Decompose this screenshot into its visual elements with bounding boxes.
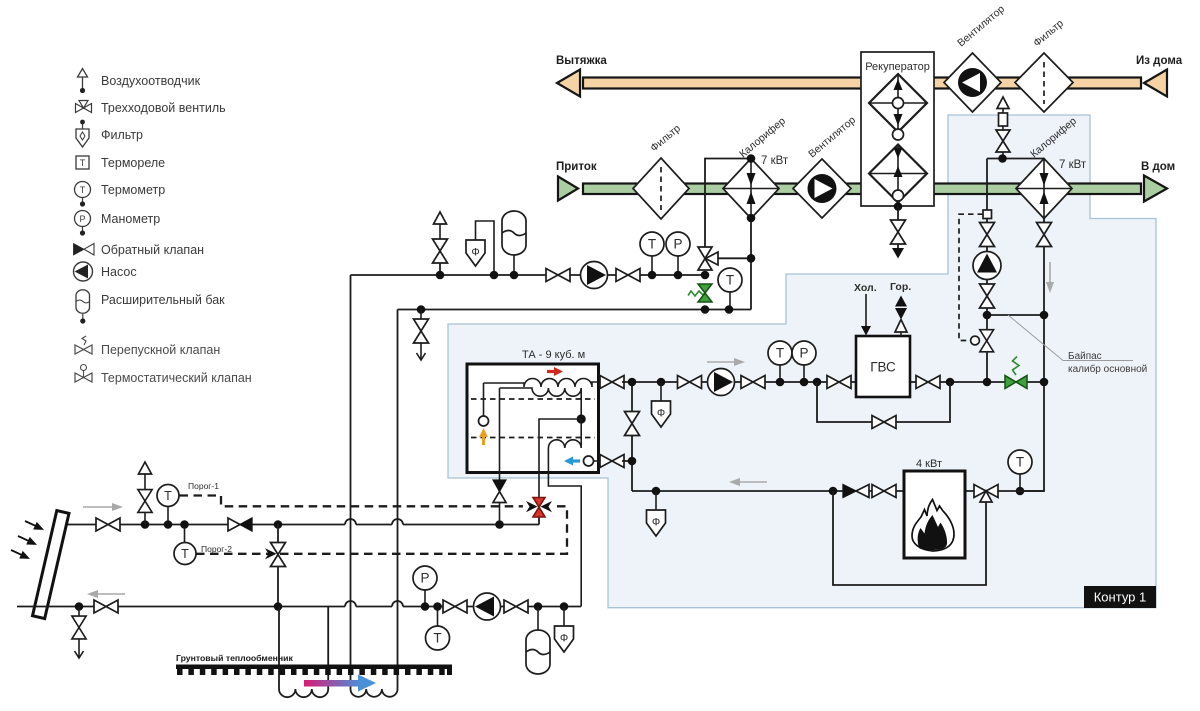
valve y382 b: [741, 376, 765, 389]
three-way valve boiler: [974, 485, 998, 503]
gray arrow right above pump: [707, 358, 745, 366]
svg-text:Приток: Приток: [556, 161, 597, 173]
node P1: [674, 271, 683, 280]
valve solar return: [94, 600, 118, 613]
filter F2 diamond: [1015, 53, 1073, 112]
actuated valve with circle: [971, 330, 994, 352]
sun rays: [9, 517, 46, 562]
wire: riser x397.5 to ground loop: [397, 310, 399, 690]
legend filter icon: [76, 120, 89, 147]
solar dump valve x278: [271, 520, 286, 606]
node x632 top: [628, 378, 637, 387]
expansion tank B2: [526, 602, 550, 674]
svg-text:4 кВт: 4 кВт: [916, 458, 942, 470]
exhaust duct: [583, 78, 1141, 89]
exhaust arrow right (Из дома): [1144, 70, 1167, 97]
pump P3 (up): [973, 252, 1001, 280]
dashed Порог-1 line: [180, 496, 524, 507]
wire: crossover y315: [987, 314, 1044, 316]
air vent V1: [433, 212, 448, 275]
legend relief valve icon: [75, 336, 92, 354]
wire: coil-2 feed jog: [987, 158, 1044, 160]
svg-text:Из дома: Из дома: [1136, 55, 1183, 67]
svg-text:T: T: [164, 489, 172, 503]
recuperator upper diamond: [869, 74, 927, 132]
node tank: [510, 271, 519, 280]
legend thermal relay icon: [76, 156, 89, 169]
node: coil-1 bottom: [747, 214, 756, 223]
supply arrow left (Приток): [558, 177, 578, 201]
valve before boiler: [872, 485, 896, 498]
wire: boiler line y491: [632, 490, 904, 492]
dashed Порог-2 line: [196, 506, 567, 554]
legend pump icon: [74, 262, 93, 281]
filter F4 on y382: [652, 378, 671, 427]
svg-text:Гор.: Гор.: [890, 281, 911, 293]
valve below pump: [980, 284, 995, 308]
manometer P2g: [792, 341, 816, 382]
svg-text:Контур 1: Контур 1: [1094, 590, 1147, 605]
TA bottom port circle: [584, 456, 603, 466]
node filter link: [490, 271, 499, 280]
svg-text:Вытяжка: Вытяжка: [556, 55, 607, 67]
recuperator box U1: [861, 52, 934, 206]
valve solar top: [96, 518, 120, 531]
wire: three-way bypass to return: [718, 258, 751, 309]
orange arrow up: [479, 428, 488, 445]
hop return over x397.5: [392, 601, 403, 607]
supply duct: [583, 184, 1141, 195]
solar collector panel: [33, 511, 69, 619]
node P2g: [800, 378, 809, 387]
pump P2 (right): [708, 369, 735, 396]
filter F5 on boiler line: [647, 487, 666, 536]
wire: right riser x987: [986, 159, 988, 383]
recuperator lower diamond: [869, 145, 927, 203]
ground loop A: [279, 607, 328, 698]
valve y382 a: [678, 376, 702, 389]
filter F6: [555, 602, 574, 652]
svg-text:T: T: [181, 547, 189, 561]
valve on y275 left: [546, 269, 570, 282]
thermometer T3: [768, 341, 792, 382]
boiler bypass loop: [833, 491, 986, 585]
wire: red valve drop: [538, 517, 540, 525]
expansion tank B1: [502, 211, 526, 275]
thermometer T5: [426, 607, 450, 651]
node bypass left: [813, 378, 822, 387]
boiler box 4kW: [904, 471, 965, 558]
blue arrow left: [564, 457, 580, 466]
gray arrow right solar top: [83, 503, 123, 511]
node y315 left: [983, 311, 992, 320]
wire: mixing drop x632: [631, 382, 633, 491]
svg-text:T: T: [80, 185, 86, 195]
svg-text:Фильтр: Фильтр: [101, 128, 143, 142]
svg-text:Насос: Насос: [101, 265, 137, 279]
gray arrow left boiler line: [729, 478, 767, 486]
gray arrow left solar return: [87, 590, 125, 598]
legend thermostatic valve icon: [75, 365, 92, 383]
recuperator drain valve: [897, 207, 899, 249]
legend manometer icon: [75, 211, 91, 236]
fan Вентилятор-1 diamond: [793, 159, 851, 218]
recuperator middle node circle: [893, 129, 904, 140]
svg-text:ГВС: ГВС: [870, 360, 896, 375]
svg-text:Трехходовой вентиль: Трехходовой вентиль: [101, 101, 226, 115]
valve on y275 right: [616, 269, 640, 282]
TA check valve drop: [493, 388, 506, 525]
node green valve bottom: [701, 305, 710, 314]
node x1044 on y382: [1040, 378, 1049, 387]
valve return b: [504, 600, 528, 613]
control square on x987: [983, 210, 992, 219]
control dashed line to actuator: [959, 214, 983, 340]
manometer P3g: [413, 566, 437, 607]
TA lower coil: [548, 419, 581, 607]
hot outlet arrow + check: [895, 296, 907, 337]
svg-text:Хол.: Хол.: [854, 282, 877, 294]
node T1: [648, 271, 657, 280]
valve GVS bypass: [872, 416, 896, 429]
node T2: [725, 305, 734, 314]
node boiler bypass left: [829, 487, 838, 496]
svg-text:Перепускной клапан: Перепускной клапан: [101, 343, 220, 357]
node T4: [1016, 487, 1025, 496]
heater Калорифер-1 diamond: [723, 159, 779, 219]
legend three-way icon: [76, 101, 92, 113]
check valve boiler: [843, 485, 869, 498]
svg-text:Термостатический клапан: Термостатический клапан: [101, 371, 252, 385]
TA inner return jog: [580, 388, 582, 419]
svg-text:ТА - 9 куб. м: ТА - 9 куб. м: [522, 349, 585, 361]
valve on x632: [625, 412, 640, 436]
node: coil-1 top: [747, 154, 756, 163]
node bypass right: [747, 254, 756, 263]
svg-text:Порог-1: Порог-1: [188, 481, 219, 491]
thermometer Порог-1: [157, 485, 179, 529]
red arrow right: [547, 367, 563, 376]
legend air vent icon: [78, 69, 88, 94]
valve TA bottom out: [600, 455, 624, 468]
wire: upper heating supply y275: [351, 274, 706, 276]
svg-text:7 кВт: 7 кВт: [1059, 159, 1087, 171]
supply arrow right (В дом): [1144, 176, 1167, 202]
svg-text:T: T: [80, 158, 86, 168]
gradient flow arrow: [304, 675, 376, 692]
GVS box: [856, 336, 910, 397]
node supply/three-way: [701, 271, 710, 280]
dart into solar dump valve: [265, 548, 277, 559]
node x987 on y382: [983, 378, 992, 387]
valve below Калорифер-2: [1037, 223, 1052, 247]
svg-text:Термореле: Термореле: [101, 156, 165, 170]
TA water level dashed lines: [471, 398, 595, 400]
svg-text:калибр основной: калибр основной: [1068, 363, 1147, 375]
thermometer T2: [718, 268, 742, 310]
svg-text:Манометр: Манометр: [101, 212, 160, 226]
TA charge port circle: [479, 383, 489, 426]
cold inlet arrow: [861, 294, 871, 336]
drain solar: [72, 602, 86, 658]
node x632 mid: [628, 457, 637, 466]
node y315 right: [1040, 311, 1049, 320]
hop return over x350.5: [345, 601, 356, 606]
recuperator drain node: [894, 202, 903, 211]
gray arrow down right riser: [1046, 262, 1054, 293]
node T5: [433, 602, 442, 611]
legend expansion tank icon: [76, 290, 90, 324]
hop over x350.5: [345, 519, 356, 524]
GVS bypass loop: [817, 382, 950, 422]
wire: lower coil line y461: [622, 460, 632, 462]
pump P4 (left): [474, 593, 501, 620]
node air vent: [436, 271, 445, 280]
three-way valve K1: [698, 247, 718, 270]
check valve solar: [228, 518, 252, 531]
TA tank box: [467, 364, 599, 473]
TA red-valve feed jog: [539, 419, 581, 497]
node after GVS: [946, 378, 955, 387]
svg-text:Расширительный бак: Расширительный бак: [101, 293, 225, 307]
wire: solar return y606.5 with hops: [17, 606, 581, 608]
svg-text:Грунтовый теплообменник: Грунтовый теплообменник: [176, 653, 294, 663]
wire: main DHW line y382: [622, 381, 1044, 383]
relief valve chain (перепускной): [996, 97, 1010, 159]
legend thermometer icon: [75, 182, 91, 207]
hop over x397.5: [392, 519, 403, 525]
svg-text:P: P: [79, 214, 85, 224]
fan Вентилятор-2 diamond: [944, 53, 1001, 112]
wire: upper heating return y309.5: [398, 309, 752, 311]
svg-text:Воздухоотводчик: Воздухоотводчик: [101, 74, 201, 88]
filter F3 with U-link: [466, 221, 494, 275]
valve return a: [443, 600, 467, 613]
thermostatic valve green (vertical): [688, 284, 712, 302]
valve TA hot out: [600, 376, 624, 389]
ground exchanger hatch bar: [176, 665, 452, 676]
air vent solar: [138, 462, 152, 529]
Контур 1 shaded region: [448, 115, 1156, 608]
exhaust arrow left (Вытяжка): [557, 70, 580, 97]
filter F1 diamond: [633, 158, 689, 219]
TA top coil lower row: [500, 388, 582, 396]
node TA inner: [577, 414, 586, 423]
thermometer T1: [640, 232, 664, 275]
svg-text:Порог-2: Порог-2: [201, 544, 232, 554]
node solar dump bottom: [274, 602, 283, 611]
svg-text:7 кВт: 7 кВт: [761, 155, 789, 167]
node: coil-2 feed junction: [998, 154, 1007, 163]
svg-text:Термометр: Термометр: [101, 183, 165, 197]
wire: supply coil-1 feed jog: [705, 159, 751, 248]
pump P1 (right): [581, 262, 608, 289]
drain valve on return: [414, 305, 429, 360]
red three-way valve: [526, 498, 552, 518]
svg-text:Байпас: Байпас: [1068, 351, 1102, 362]
wire: coil-1 return drop: [750, 218, 752, 258]
svg-text:В дом: В дом: [1141, 161, 1175, 173]
Контур 1 tag: [1084, 586, 1156, 608]
svg-text:Обратный клапан: Обратный клапан: [101, 243, 204, 257]
wire: riser x350.5 to ground loop: [350, 275, 352, 689]
legend check valve icon: [74, 244, 95, 256]
wire: solar supply y524.5 with hops: [66, 524, 539, 526]
node T3: [776, 378, 785, 387]
valve after GVS: [916, 376, 940, 389]
valve before GVS: [827, 376, 851, 389]
heater Калорифер-2 diamond: [1016, 159, 1072, 219]
node TA check to solar line: [495, 520, 504, 529]
wire: right riser x1044: [1020, 219, 1044, 492]
svg-text:Рекуператор: Рекуператор: [865, 61, 930, 73]
thermostatic valve green (horizontal): [1005, 357, 1027, 389]
thermometer T4 boiler: [1008, 450, 1032, 491]
TA top coil upper row: [484, 379, 599, 388]
manometer P1g: [666, 232, 690, 275]
node P3g: [421, 602, 430, 611]
flame icon: [912, 500, 954, 552]
valve below square: [980, 223, 995, 247]
leader line Байпас: [1008, 315, 1133, 361]
ground loop B coil: [351, 689, 398, 697]
thermometer Порог-2: [174, 520, 196, 564]
drain arrow down: [892, 248, 904, 259]
